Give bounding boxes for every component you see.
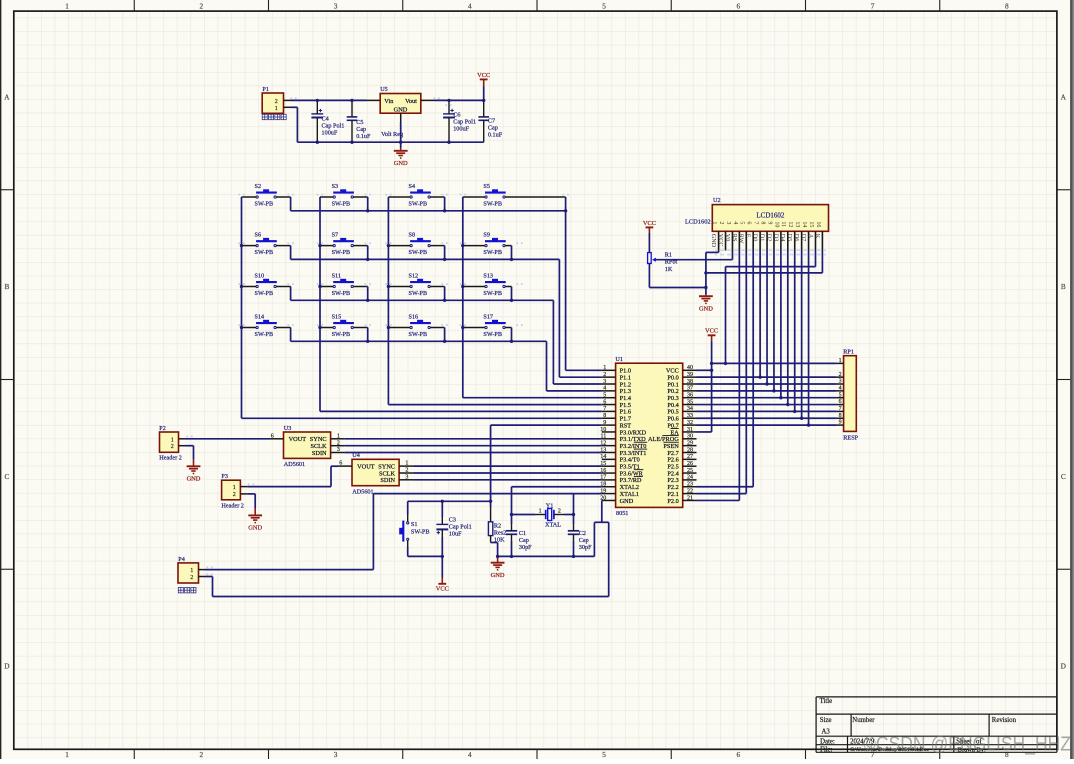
svg-text:S1: S1	[411, 521, 418, 528]
svg-text:8: 8	[1005, 1, 1009, 10]
svg-text:SW-PB: SW-PB	[483, 249, 502, 256]
svg-text:3: 3	[405, 474, 408, 480]
svg-text:VOUT: VOUT	[357, 463, 375, 470]
svg-text:SDIN: SDIN	[380, 477, 395, 484]
svg-text:D4: D4	[779, 234, 786, 242]
svg-text:GND: GND	[187, 476, 201, 483]
svg-text:A: A	[807, 234, 814, 239]
svg-text:SW-PB: SW-PB	[255, 290, 274, 297]
svg-text:VCC: VCC	[717, 234, 724, 247]
svg-text:P4: P4	[178, 556, 185, 563]
svg-text:XTAL: XTAL	[545, 521, 561, 528]
svg-text:SW-PB: SW-PB	[409, 249, 428, 256]
svg-text:S8: S8	[409, 231, 416, 238]
svg-text:0.1uF: 0.1uF	[356, 133, 371, 140]
svg-text:2: 2	[200, 1, 204, 10]
svg-text:RS: RS	[731, 234, 738, 242]
svg-text:27: 27	[687, 454, 693, 460]
svg-text:4: 4	[732, 221, 738, 224]
svg-text:14: 14	[600, 454, 606, 460]
svg-text:2: 2	[200, 750, 204, 759]
svg-text:S7: S7	[332, 231, 339, 238]
svg-text:2: 2	[190, 575, 193, 581]
svg-text:VCC: VCC	[705, 328, 718, 335]
svg-text:8: 8	[759, 221, 765, 224]
svg-text:GND: GND	[394, 160, 408, 167]
svg-text:100uF: 100uF	[453, 126, 469, 133]
svg-text:1: 1	[275, 106, 278, 112]
svg-text:37: 37	[687, 386, 693, 392]
svg-text:Header 2: Header 2	[159, 455, 182, 462]
svg-text:A: A	[1061, 92, 1067, 101]
svg-text:1: 1	[711, 221, 717, 224]
svg-text:6: 6	[603, 399, 606, 405]
svg-text:C5: C5	[356, 119, 363, 126]
svg-text:C4: C4	[322, 115, 329, 122]
svg-text:30: 30	[687, 434, 693, 440]
svg-text:33: 33	[687, 413, 693, 419]
svg-text:12: 12	[787, 221, 793, 227]
svg-text:K: K	[814, 234, 821, 239]
svg-text:D1: D1	[758, 234, 765, 242]
svg-text:2: 2	[337, 440, 340, 446]
svg-text:5: 5	[602, 1, 606, 10]
svg-text:9: 9	[839, 420, 842, 426]
svg-text:GND: GND	[491, 572, 505, 579]
svg-text:24: 24	[687, 475, 693, 481]
svg-text:GND: GND	[248, 525, 262, 532]
svg-text:S14: S14	[255, 313, 265, 320]
svg-text:1: 1	[190, 568, 193, 574]
svg-text:30pF: 30pF	[519, 544, 532, 551]
svg-text:2: 2	[171, 444, 174, 450]
svg-text:R1: R1	[665, 252, 672, 259]
svg-text:RESP: RESP	[843, 435, 858, 442]
svg-text:A: A	[4, 92, 10, 101]
svg-text:38: 38	[687, 379, 693, 385]
svg-text:40: 40	[687, 365, 693, 371]
svg-text:AD5601: AD5601	[352, 488, 373, 495]
svg-text:100uF: 100uF	[322, 129, 338, 136]
svg-text:SW-PB: SW-PB	[409, 201, 428, 208]
svg-text:VCC: VCC	[643, 220, 656, 227]
svg-text:1: 1	[539, 509, 542, 515]
svg-text:Cap Pol1: Cap Pol1	[449, 523, 472, 530]
svg-text:1K: 1K	[665, 266, 673, 273]
svg-text:C: C	[1061, 472, 1066, 481]
svg-text:0.1uF: 0.1uF	[488, 132, 503, 139]
svg-text:10uF: 10uF	[449, 531, 462, 538]
svg-text:A3: A3	[822, 729, 831, 736]
svg-text:P2: P2	[159, 425, 166, 432]
svg-text:7: 7	[603, 406, 606, 412]
svg-text:3: 3	[334, 1, 338, 10]
svg-text:S9: S9	[483, 231, 490, 238]
svg-text:29: 29	[687, 440, 693, 446]
svg-text:36: 36	[687, 393, 693, 399]
svg-text:SW-PB: SW-PB	[332, 290, 351, 297]
svg-text:D: D	[4, 662, 9, 671]
svg-text:23: 23	[687, 482, 693, 488]
svg-text:32: 32	[687, 420, 693, 426]
svg-text:S2: S2	[255, 183, 262, 190]
svg-text:E: E	[745, 234, 752, 238]
svg-text:28: 28	[687, 447, 693, 453]
svg-text:Header 2: Header 2	[221, 502, 244, 509]
svg-text:RW: RW	[738, 234, 745, 244]
svg-text:RPot: RPot	[665, 259, 678, 266]
svg-text:S4: S4	[409, 183, 416, 190]
svg-text:C: C	[4, 472, 9, 481]
svg-text:26: 26	[687, 461, 693, 467]
svg-text:B: B	[4, 282, 9, 291]
svg-text:20: 20	[600, 495, 606, 501]
svg-text:D3: D3	[772, 234, 779, 242]
svg-text:Title: Title	[820, 698, 833, 705]
svg-text:5: 5	[839, 392, 842, 398]
svg-text:SDIN: SDIN	[312, 450, 327, 457]
svg-text:Cap: Cap	[519, 537, 529, 544]
svg-text:GND: GND	[620, 498, 634, 505]
svg-text:5: 5	[739, 221, 745, 224]
svg-text:SW-PB: SW-PB	[409, 290, 428, 297]
svg-text:S5: S5	[483, 183, 490, 190]
svg-text:S17: S17	[483, 313, 493, 320]
svg-text:S10: S10	[255, 272, 265, 279]
svg-text:1: 1	[233, 485, 236, 491]
svg-text:8: 8	[839, 413, 842, 419]
svg-text:LCD1602: LCD1602	[685, 219, 711, 226]
svg-text:VCC: VCC	[436, 586, 449, 593]
svg-text:3: 3	[337, 447, 340, 453]
svg-text:U2: U2	[713, 197, 721, 204]
svg-text:P3: P3	[221, 473, 228, 480]
svg-text:C6: C6	[453, 112, 460, 119]
svg-text:C7: C7	[488, 118, 495, 125]
svg-text:VCC: VCC	[477, 72, 490, 79]
svg-text:2: 2	[603, 372, 606, 378]
svg-text:35: 35	[687, 399, 693, 405]
svg-text:B: B	[1061, 282, 1066, 291]
svg-text:6: 6	[839, 399, 842, 405]
svg-text:D7: D7	[800, 234, 807, 242]
svg-text:1: 1	[603, 365, 606, 371]
svg-text:U3: U3	[284, 425, 292, 432]
svg-text:S13: S13	[483, 272, 493, 279]
svg-text:SW-PB: SW-PB	[332, 201, 351, 208]
svg-text:U5: U5	[380, 86, 388, 93]
svg-text:7: 7	[871, 1, 875, 10]
svg-text:39: 39	[687, 372, 693, 378]
svg-text:D2: D2	[765, 234, 772, 242]
svg-text:22: 22	[687, 488, 693, 494]
svg-text:D6: D6	[793, 234, 800, 242]
svg-text:SW-PB: SW-PB	[483, 331, 502, 338]
svg-text:©CSDN @ENGLISH_HHZ: ©CSDN @ENGLISH_HHZ	[863, 734, 1071, 756]
svg-text:3: 3	[725, 221, 731, 224]
svg-text:Number: Number	[852, 717, 875, 724]
svg-text:14: 14	[801, 221, 807, 227]
svg-text:C3: C3	[449, 516, 456, 523]
svg-text:P1: P1	[262, 86, 269, 93]
svg-text:30pF: 30pF	[579, 544, 592, 551]
svg-text:P2.0: P2.0	[667, 498, 678, 505]
svg-text:1: 1	[839, 358, 842, 364]
svg-text:6: 6	[339, 461, 342, 467]
svg-text:7: 7	[753, 221, 759, 224]
svg-text:VOUT: VOUT	[289, 436, 307, 443]
svg-text:LCD1602: LCD1602	[756, 211, 785, 219]
svg-text:GND: GND	[394, 106, 408, 113]
svg-text:9: 9	[603, 420, 606, 426]
svg-text:6: 6	[746, 221, 752, 224]
svg-text:5: 5	[603, 393, 606, 399]
svg-text:S6: S6	[255, 231, 262, 238]
svg-text:U1: U1	[615, 356, 623, 363]
svg-text:S11: S11	[332, 272, 341, 279]
svg-text:C1: C1	[519, 530, 526, 537]
svg-text:1: 1	[171, 437, 174, 443]
svg-text:2: 2	[405, 468, 408, 474]
svg-text:10: 10	[600, 427, 606, 433]
svg-text:Cap Pol1: Cap Pol1	[453, 119, 476, 126]
svg-text:D: D	[1061, 662, 1066, 671]
svg-text:SW-PB: SW-PB	[255, 331, 274, 338]
svg-text:6: 6	[271, 433, 274, 439]
svg-text:1: 1	[337, 433, 340, 439]
svg-text:1: 1	[65, 1, 69, 10]
svg-text:SW-PB: SW-PB	[483, 201, 502, 208]
svg-text:3: 3	[839, 379, 842, 385]
svg-text:31: 31	[687, 427, 693, 433]
svg-text:SW-PB: SW-PB	[483, 290, 502, 297]
svg-text:3: 3	[603, 379, 606, 385]
svg-text:GND: GND	[699, 305, 713, 312]
svg-text:R2: R2	[494, 522, 501, 529]
svg-text:10: 10	[773, 221, 779, 227]
svg-text:Revision: Revision	[992, 717, 1017, 724]
svg-text:1: 1	[65, 750, 69, 759]
svg-text:SW-PB: SW-PB	[255, 201, 274, 208]
svg-text:21: 21	[687, 495, 693, 501]
svg-text:Size: Size	[820, 717, 832, 724]
svg-text:7: 7	[839, 406, 842, 412]
svg-text:RP1: RP1	[843, 349, 854, 356]
svg-text:V0: V0	[724, 234, 731, 242]
svg-text:34: 34	[687, 406, 693, 412]
svg-text:S16: S16	[409, 313, 419, 320]
svg-text:S12: S12	[409, 272, 419, 279]
svg-text:Cap: Cap	[488, 125, 498, 132]
svg-text:SW-PB: SW-PB	[411, 528, 430, 535]
svg-text:15: 15	[808, 221, 814, 227]
svg-text:S15: S15	[332, 313, 342, 320]
svg-text:SW-PB: SW-PB	[332, 249, 351, 256]
svg-text:6: 6	[737, 750, 741, 759]
svg-text:2: 2	[558, 509, 561, 515]
svg-text:D5: D5	[786, 234, 793, 242]
svg-text:4: 4	[603, 386, 606, 392]
svg-text:2: 2	[233, 492, 236, 498]
svg-text:SW-PB: SW-PB	[409, 331, 428, 338]
svg-text:Cap: Cap	[579, 537, 589, 544]
svg-text:Date:: Date:	[820, 738, 835, 745]
svg-text:File:: File:	[820, 746, 833, 753]
svg-text:C2: C2	[579, 530, 586, 537]
svg-text:4: 4	[839, 385, 842, 391]
svg-text:S3: S3	[332, 183, 339, 190]
svg-text:SW-PB: SW-PB	[255, 249, 274, 256]
svg-text:2: 2	[275, 99, 278, 105]
svg-text:8051: 8051	[616, 510, 628, 517]
svg-text:6: 6	[737, 1, 741, 10]
svg-text:4: 4	[468, 1, 472, 10]
svg-text:4: 4	[468, 750, 472, 759]
svg-text:AD5601: AD5601	[284, 461, 305, 468]
svg-text:SW-PB: SW-PB	[332, 331, 351, 338]
svg-text:1: 1	[405, 461, 408, 467]
svg-text:2: 2	[839, 372, 842, 378]
svg-text:8: 8	[603, 413, 606, 419]
svg-text:25: 25	[687, 468, 693, 474]
svg-text:5: 5	[602, 750, 606, 759]
svg-text:Cap: Cap	[356, 126, 366, 133]
svg-text:D0: D0	[752, 234, 759, 242]
svg-text:Vin: Vin	[384, 98, 394, 105]
svg-text:9: 9	[766, 221, 772, 224]
svg-text:2: 2	[718, 221, 724, 224]
svg-text:Vout: Vout	[405, 98, 417, 105]
svg-text:11: 11	[780, 221, 786, 227]
svg-text:3: 3	[334, 750, 338, 759]
svg-text:GND: GND	[710, 234, 717, 248]
svg-text:Res2: Res2	[494, 529, 506, 536]
svg-text:13: 13	[794, 221, 800, 227]
svg-text:16: 16	[815, 221, 821, 227]
svg-text:Cap Pol1: Cap Pol1	[322, 122, 345, 129]
